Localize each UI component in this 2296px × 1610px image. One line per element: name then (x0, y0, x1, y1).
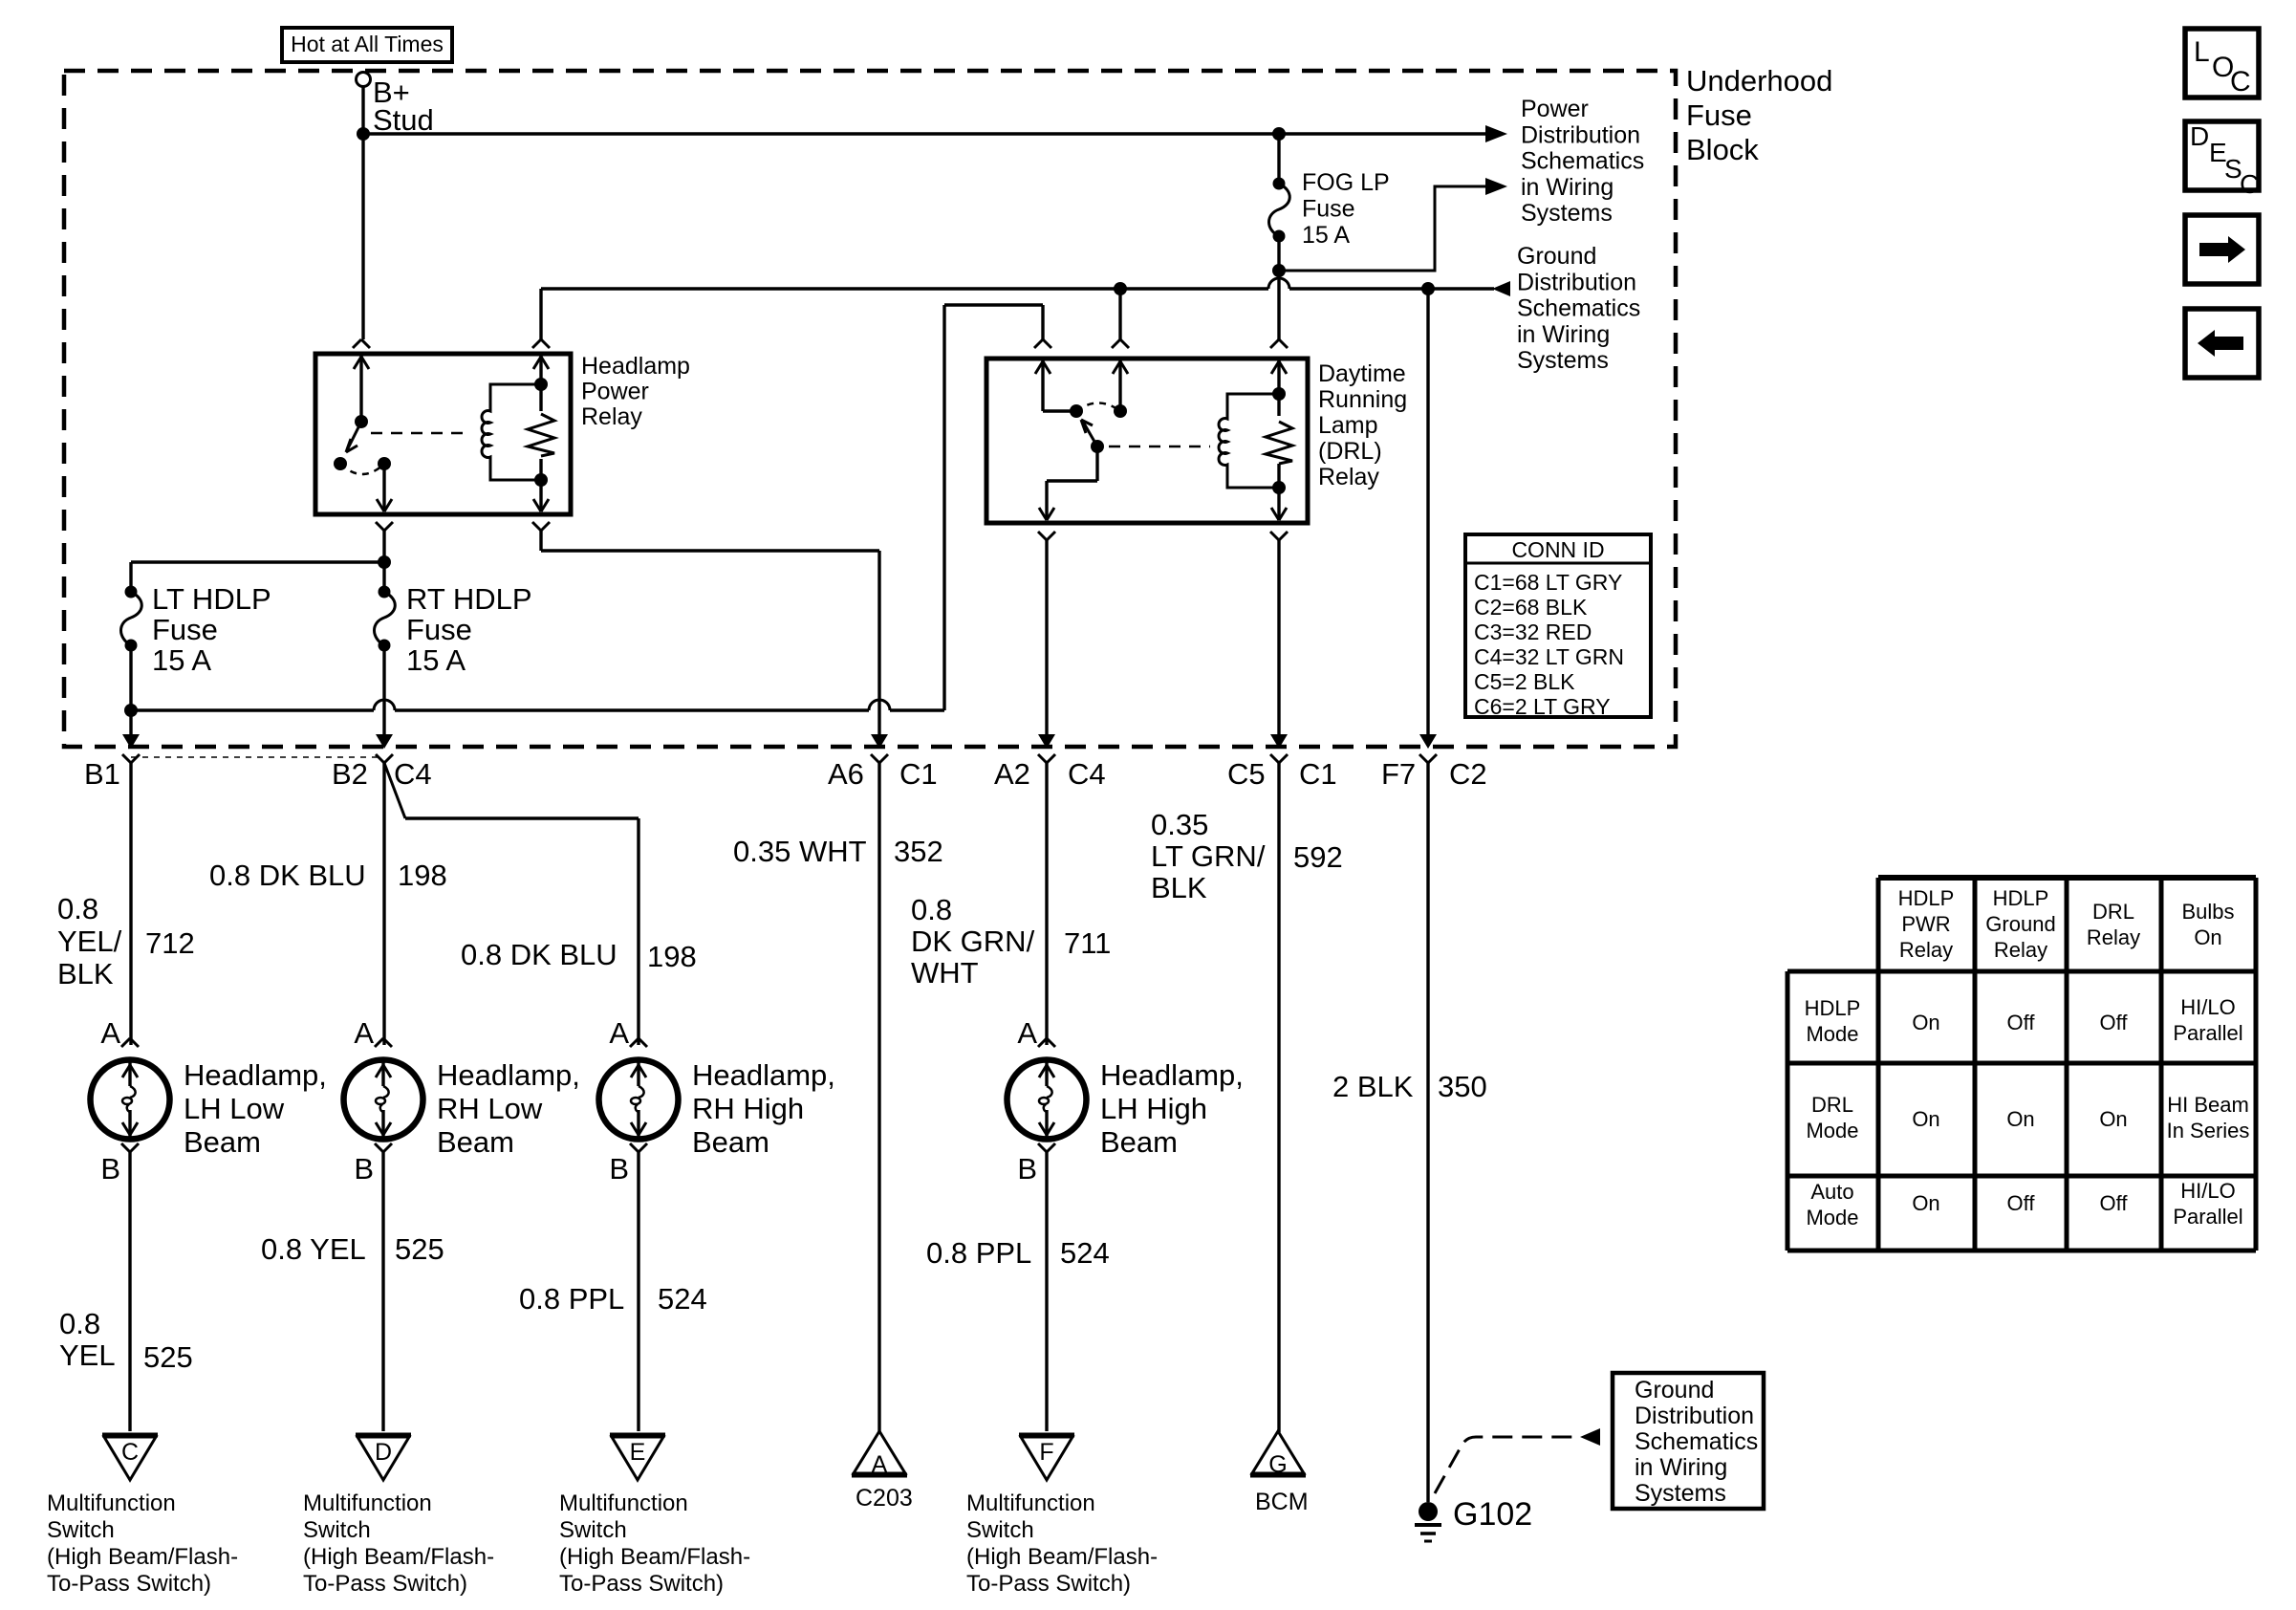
svg-text:DRL: DRL (1811, 1093, 1853, 1117)
svg-text:Beam: Beam (437, 1125, 514, 1159)
svg-text:Distribution: Distribution (1521, 121, 1640, 148)
svg-text:A: A (872, 1451, 888, 1478)
svg-text:352: 352 (894, 835, 943, 868)
svg-text:198: 198 (647, 940, 697, 973)
svg-text:YEL: YEL (59, 1338, 116, 1372)
svg-text:B2: B2 (332, 757, 368, 791)
svg-text:Power: Power (1521, 96, 1589, 122)
svg-text:(High Beam/Flash-: (High Beam/Flash- (47, 1544, 238, 1570)
svg-text:HI Beam: HI Beam (2167, 1093, 2249, 1117)
svg-text:A: A (609, 1016, 629, 1050)
svg-text:(DRL): (DRL) (1318, 438, 1382, 465)
svg-text:C2: C2 (1449, 757, 1487, 791)
svg-text:B: B (1017, 1152, 1037, 1186)
svg-text:Multifunction: Multifunction (966, 1490, 1095, 1516)
svg-text:Switch: Switch (47, 1517, 115, 1543)
svg-text:Multifunction: Multifunction (303, 1490, 432, 1516)
svg-text:HDLP: HDLP (1993, 886, 2049, 910)
svg-text:C4=32 LT GRN: C4=32 LT GRN (1474, 644, 1624, 669)
svg-text:C: C (2230, 66, 2251, 98)
svg-text:C2=68 BLK: C2=68 BLK (1474, 595, 1588, 620)
svg-text:Headlamp,: Headlamp, (437, 1058, 580, 1092)
svg-text:Ground: Ground (1985, 912, 2055, 936)
svg-text:Relay: Relay (2087, 925, 2140, 949)
svg-text:C1: C1 (899, 757, 938, 791)
svg-text:C1=68 LT GRY: C1=68 LT GRY (1474, 570, 1622, 595)
svg-text:712: 712 (145, 926, 195, 960)
svg-text:B: B (354, 1152, 374, 1186)
svg-text:Relay: Relay (581, 403, 642, 430)
svg-text:BLK: BLK (1151, 871, 1207, 904)
svg-text:711: 711 (1064, 926, 1111, 960)
svg-text:RH High: RH High (692, 1092, 804, 1125)
svg-text:Stud: Stud (373, 103, 434, 137)
svg-text:0.8: 0.8 (57, 892, 98, 925)
svg-text:Hot at All Times: Hot at All Times (291, 32, 444, 56)
svg-text:Relay: Relay (1899, 938, 1953, 962)
svg-text:FOG LP: FOG LP (1302, 169, 1390, 196)
svg-text:in Wiring: in Wiring (1517, 321, 1610, 348)
svg-text:A: A (1017, 1016, 1037, 1050)
svg-text:Schematics: Schematics (1521, 148, 1644, 175)
svg-text:To-Pass Switch): To-Pass Switch) (303, 1571, 467, 1597)
svg-text:LT HDLP: LT HDLP (152, 582, 271, 616)
svg-text:Ground: Ground (1517, 243, 1596, 270)
svg-text:Parallel: Parallel (2173, 1205, 2242, 1229)
svg-text:Headlamp,: Headlamp, (1100, 1058, 1244, 1092)
svg-text:DK GRN/: DK GRN/ (911, 925, 1035, 958)
svg-text:LH Low: LH Low (184, 1092, 285, 1125)
svg-text:Underhood: Underhood (1686, 64, 1832, 98)
svg-text:Running: Running (1318, 386, 1407, 413)
svg-text:A: A (100, 1016, 120, 1050)
svg-text:On: On (2006, 1107, 2034, 1131)
svg-text:YEL/: YEL/ (57, 925, 122, 958)
svg-text:HDLP: HDLP (1898, 886, 1955, 910)
svg-text:L: L (2194, 36, 2210, 68)
svg-text:E: E (630, 1439, 646, 1466)
svg-text:C6=2 LT GRY: C6=2 LT GRY (1474, 694, 1611, 719)
svg-text:Beam: Beam (1100, 1125, 1178, 1159)
svg-text:Systems: Systems (1521, 200, 1613, 227)
svg-text:To-Pass Switch): To-Pass Switch) (966, 1571, 1131, 1597)
svg-text:B: B (609, 1152, 629, 1186)
svg-text:A6: A6 (828, 757, 864, 791)
svg-text:C203: C203 (856, 1485, 913, 1512)
svg-text:PWR: PWR (1901, 912, 1950, 936)
svg-text:Relay: Relay (1318, 464, 1379, 490)
svg-text:Fuse: Fuse (1302, 196, 1355, 223)
svg-text:C3=32 RED: C3=32 RED (1474, 620, 1592, 644)
svg-text:0.8 DK BLU: 0.8 DK BLU (209, 859, 366, 892)
svg-text:Systems: Systems (1517, 347, 1609, 374)
svg-text:LT GRN/: LT GRN/ (1151, 839, 1266, 873)
svg-text:0.8: 0.8 (59, 1307, 100, 1340)
svg-text:WHT: WHT (911, 956, 979, 990)
svg-text:BCM: BCM (1255, 1489, 1309, 1515)
svg-text:BLK: BLK (57, 957, 114, 990)
svg-text:CONN ID: CONN ID (1511, 537, 1604, 562)
svg-text:Ground: Ground (1635, 1377, 1714, 1403)
svg-text:Headlamp,: Headlamp, (692, 1058, 835, 1092)
svg-text:In Series: In Series (2167, 1119, 2250, 1142)
svg-text:RH Low: RH Low (437, 1092, 543, 1125)
svg-text:Lamp: Lamp (1318, 412, 1378, 439)
svg-text:C4: C4 (394, 757, 432, 791)
svg-text:Systems: Systems (1635, 1480, 1726, 1507)
svg-text:On: On (1912, 1107, 1939, 1131)
svg-text:350: 350 (1438, 1070, 1487, 1103)
svg-text:C1: C1 (1299, 757, 1337, 791)
svg-text:F7: F7 (1381, 757, 1416, 791)
svg-text:Mode: Mode (1806, 1206, 1858, 1229)
svg-text:198: 198 (398, 859, 447, 892)
svg-text:On: On (1912, 1191, 1939, 1215)
svg-text:HDLP: HDLP (1805, 996, 1861, 1020)
svg-text:A2: A2 (994, 757, 1030, 791)
svg-text:15 A: 15 A (152, 643, 211, 677)
svg-text:0.8 YEL: 0.8 YEL (261, 1232, 366, 1266)
svg-text:B: B (100, 1152, 120, 1186)
svg-text:592: 592 (1293, 840, 1343, 874)
svg-text:Mode: Mode (1806, 1022, 1858, 1046)
svg-text:Parallel: Parallel (2173, 1021, 2242, 1045)
svg-text:0.8 PPL: 0.8 PPL (519, 1282, 624, 1316)
svg-text:Fuse: Fuse (152, 613, 218, 646)
svg-text:524: 524 (1060, 1236, 1110, 1270)
svg-text:0.8 DK BLU: 0.8 DK BLU (461, 938, 617, 971)
svg-text:Headlamp: Headlamp (581, 353, 690, 380)
svg-text:HI/LO: HI/LO (2180, 995, 2235, 1019)
svg-text:Multifunction: Multifunction (559, 1490, 688, 1516)
svg-text:Schematics: Schematics (1517, 295, 1640, 322)
svg-text:B1: B1 (84, 757, 120, 791)
svg-text:G102: G102 (1453, 1496, 1532, 1533)
svg-text:15 A: 15 A (406, 643, 466, 677)
svg-text:On: On (2194, 925, 2221, 949)
svg-text:Switch: Switch (559, 1517, 627, 1543)
svg-text:C: C (2240, 169, 2259, 199)
svg-text:524: 524 (658, 1282, 707, 1316)
svg-text:On: On (2099, 1107, 2127, 1131)
svg-text:0.35 WHT: 0.35 WHT (733, 835, 867, 868)
svg-text:Multifunction: Multifunction (47, 1490, 176, 1516)
svg-text:Power: Power (581, 379, 649, 405)
svg-text:(High Beam/Flash-: (High Beam/Flash- (303, 1544, 494, 1570)
svg-text:Switch: Switch (303, 1517, 371, 1543)
svg-text:D: D (2190, 121, 2209, 151)
svg-text:On: On (1912, 1011, 1939, 1034)
svg-text:Off: Off (2100, 1011, 2129, 1034)
svg-text:Relay: Relay (1994, 938, 2047, 962)
svg-text:Fuse: Fuse (406, 613, 472, 646)
svg-text:G: G (1268, 1451, 1287, 1478)
svg-text:525: 525 (395, 1232, 444, 1266)
svg-text:D: D (375, 1439, 392, 1466)
svg-text:Beam: Beam (184, 1125, 261, 1159)
svg-text:in Wiring: in Wiring (1521, 174, 1614, 201)
svg-text:(High Beam/Flash-: (High Beam/Flash- (966, 1544, 1158, 1570)
svg-text:Headlamp,: Headlamp, (184, 1058, 327, 1092)
svg-text:0.8 PPL: 0.8 PPL (926, 1236, 1031, 1270)
svg-text:To-Pass Switch): To-Pass Switch) (47, 1571, 211, 1597)
svg-text:LH High: LH High (1100, 1092, 1207, 1125)
svg-text:Bulbs: Bulbs (2181, 900, 2234, 924)
svg-text:(High Beam/Flash-: (High Beam/Flash- (559, 1544, 750, 1570)
svg-text:Beam: Beam (692, 1125, 769, 1159)
svg-text:0.8: 0.8 (911, 893, 952, 926)
svg-text:Distribution: Distribution (1517, 269, 1636, 295)
svg-text:F: F (1039, 1439, 1053, 1466)
svg-text:RT HDLP: RT HDLP (406, 582, 532, 616)
svg-text:Off: Off (2007, 1191, 2036, 1215)
svg-text:A: A (354, 1016, 374, 1050)
svg-text:Switch: Switch (966, 1517, 1034, 1543)
svg-text:DRL: DRL (2092, 900, 2134, 924)
svg-text:Off: Off (2007, 1011, 2036, 1034)
svg-text:2 BLK: 2 BLK (1332, 1070, 1414, 1103)
svg-text:Schematics: Schematics (1635, 1428, 1758, 1455)
svg-text:HI/LO: HI/LO (2180, 1179, 2235, 1203)
svg-text:Distribution: Distribution (1635, 1403, 1754, 1429)
svg-text:Auto: Auto (1810, 1180, 1853, 1204)
svg-text:Daytime: Daytime (1318, 360, 1406, 387)
svg-text:To-Pass Switch): To-Pass Switch) (559, 1571, 724, 1597)
svg-text:Block: Block (1686, 133, 1759, 166)
svg-text:525: 525 (143, 1340, 193, 1374)
svg-text:C: C (121, 1439, 139, 1466)
svg-text:Off: Off (2100, 1191, 2129, 1215)
svg-text:Mode: Mode (1806, 1119, 1858, 1142)
svg-text:0.35: 0.35 (1151, 808, 1208, 841)
svg-text:Fuse: Fuse (1686, 98, 1752, 132)
svg-text:C5=2 BLK: C5=2 BLK (1474, 669, 1575, 694)
svg-text:C4: C4 (1068, 757, 1106, 791)
svg-text:in Wiring: in Wiring (1635, 1454, 1727, 1481)
svg-text:15 A: 15 A (1302, 222, 1350, 249)
svg-text:C5: C5 (1227, 757, 1266, 791)
